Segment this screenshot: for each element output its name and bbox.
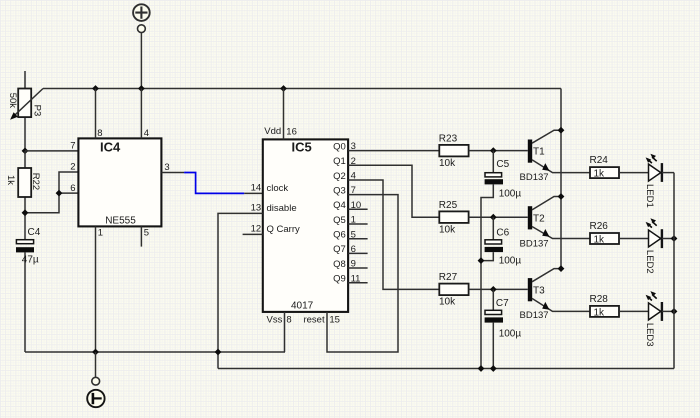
node R27/C7 [490, 286, 497, 293]
svg-text:Vss: Vss [267, 315, 283, 326]
svg-text:T1: T1 [533, 147, 545, 158]
svg-text:16: 16 [286, 126, 297, 137]
svg-text:13: 13 [251, 202, 262, 213]
svg-text:clock: clock [267, 183, 289, 194]
svg-text:NE555: NE555 [105, 216, 136, 227]
svg-text:Q4: Q4 [333, 200, 346, 211]
svg-text:reset: reset [303, 315, 324, 326]
svg-text:14: 14 [251, 183, 262, 194]
svg-text:Q8: Q8 [333, 259, 346, 270]
node top rail / supply [138, 85, 145, 92]
svg-text:3: 3 [164, 162, 169, 173]
svg-text:100µ: 100µ [499, 328, 522, 339]
wire Q1 to R25 [348, 165, 439, 217]
wire R24 to LED1 [619, 172, 649, 174]
svg-text:Q0: Q0 [333, 141, 346, 152]
wire IC4 pin8 [95, 89, 97, 139]
svg-text:R24: R24 [590, 155, 609, 166]
svg-text:Q Carry: Q Carry [267, 224, 301, 235]
svg-text:R23: R23 [439, 133, 458, 144]
svg-text:2: 2 [70, 162, 75, 173]
resistor R25 [439, 200, 469, 235]
wire R26 to LED2 [619, 238, 649, 240]
wire IC5 clock stub [244, 192, 263, 194]
svg-text:R26: R26 [590, 221, 609, 232]
wire Q6 stub [348, 238, 368, 240]
svg-text:C4: C4 [28, 227, 41, 238]
svg-text:BD137: BD137 [520, 310, 549, 321]
wire R27 to T3 base [469, 288, 528, 290]
svg-text:Vdd: Vdd [264, 126, 281, 137]
node R25/C6 [490, 214, 497, 221]
wire Q9 stub [348, 282, 368, 284]
svg-text:47µ: 47µ [22, 254, 39, 265]
svg-text:BD137: BD137 [520, 172, 549, 183]
svg-text:1k: 1k [594, 234, 606, 245]
wire IC5 Vss to ground bus [284, 312, 286, 352]
svg-text:Q9: Q9 [333, 274, 346, 285]
svg-text:Q5: Q5 [333, 215, 346, 226]
svg-text:disable: disable [267, 203, 297, 214]
transistor T2 [520, 197, 591, 250]
svg-text:R28: R28 [590, 294, 609, 305]
transistor T1 [520, 130, 591, 183]
svg-text:Q1: Q1 [333, 156, 346, 167]
wire Q7 stub [348, 252, 368, 254]
wire R28 to LED3 [619, 310, 649, 312]
node bus B / C-rail [478, 365, 485, 372]
wire supply to top rail [140, 33, 142, 89]
svg-text:IC4: IC4 [100, 140, 121, 155]
svg-text:7: 7 [351, 185, 356, 196]
LED LED1 [646, 154, 674, 182]
wire ground bus A [25, 351, 285, 353]
node bus B / C7 [490, 365, 497, 372]
svg-text:Q3: Q3 [333, 185, 346, 196]
wire ground bus B [218, 368, 674, 370]
svg-text:T3: T3 [533, 285, 545, 296]
wire blue IC4 pin3 to IC5 clock [184, 173, 244, 194]
svg-text:6: 6 [70, 183, 75, 194]
svg-text:8: 8 [286, 315, 291, 326]
wire IC4 pin2/pin6 [25, 172, 78, 213]
svg-text:C5: C5 [496, 159, 509, 170]
supply terminal + [133, 4, 150, 32]
svg-text:1k: 1k [594, 169, 606, 180]
resistor R26 [590, 221, 620, 245]
svg-text:10k: 10k [439, 297, 456, 308]
transistor T3 [520, 269, 591, 322]
svg-text:LED1: LED1 [644, 184, 655, 208]
node bus A / disable drop [215, 349, 222, 356]
potentiometer P3 [10, 71, 43, 151]
resistor R24 [590, 155, 620, 179]
wire pin7 [25, 150, 78, 152]
svg-text:5: 5 [144, 227, 149, 238]
wire Q5 stub [348, 223, 368, 225]
wire Q2 to R27 [348, 180, 439, 289]
svg-text:12: 12 [251, 223, 262, 234]
svg-text:100µ: 100µ [499, 189, 522, 200]
node pin6 [56, 190, 63, 197]
svg-text:10k: 10k [439, 158, 456, 169]
wire Q8 stub [348, 267, 368, 269]
svg-text:LED2: LED2 [644, 250, 655, 274]
node top rail / IC4 pin8 [92, 85, 99, 92]
svg-text:P3: P3 [31, 105, 42, 117]
svg-text:7: 7 [70, 141, 75, 152]
node LED3 rail [671, 308, 678, 315]
svg-text:IC5: IC5 [292, 140, 312, 155]
svg-text:BD137: BD137 [520, 239, 549, 250]
node P3/R22/pin7 [22, 148, 29, 155]
node top rail / IC5 Vdd [280, 85, 287, 92]
svg-text:R27: R27 [439, 272, 458, 283]
svg-text:1k: 1k [5, 175, 16, 185]
svg-text:10k: 10k [439, 224, 456, 235]
resistor R22 [18, 151, 31, 240]
svg-text:1: 1 [98, 227, 103, 238]
wire R23 to T1 base [469, 150, 528, 152]
resistor R28 [590, 294, 620, 318]
wire R25 to T2 base [469, 216, 528, 218]
wire IC4 pin5 stub [140, 226, 142, 246]
wire IC5 Q Carry stub [243, 233, 263, 235]
wire Q4 stub [348, 208, 368, 210]
capacitor C7 [485, 289, 522, 368]
svg-text:R22: R22 [30, 173, 41, 190]
svg-text:Q2: Q2 [333, 171, 346, 182]
node C6/C5 rail [478, 257, 485, 264]
node R23/C5 [490, 147, 497, 154]
node T1 collector [558, 127, 565, 134]
svg-text:C6: C6 [496, 227, 509, 238]
ground terminal [87, 352, 104, 407]
capacitor C6 [481, 217, 521, 266]
wire IC5 disable to ground [218, 213, 263, 368]
wire top rail [43, 88, 561, 90]
svg-text:LED3: LED3 [644, 323, 655, 347]
wire IC5 reset loop from Q3 [327, 195, 398, 352]
svg-text:15: 15 [329, 315, 340, 326]
node R22/C4 [22, 209, 29, 216]
svg-text:T2: T2 [533, 213, 545, 224]
wire LED cathode rail [673, 173, 675, 369]
LED LED3 [646, 291, 674, 321]
svg-text:1k: 1k [594, 307, 606, 318]
resistor R27 [439, 272, 469, 307]
wire IC4 pin1 to ground bus [95, 226, 97, 352]
node T3 collector [558, 265, 565, 272]
svg-text:Q7: Q7 [333, 244, 346, 255]
svg-text:R25: R25 [439, 200, 458, 211]
node LED2 rail [671, 235, 678, 242]
resistor R23 [439, 133, 469, 168]
capacitor C5 [481, 151, 521, 369]
wire IC4 pin3 stub [161, 172, 184, 174]
svg-text:C7: C7 [496, 298, 509, 309]
svg-text:50k: 50k [7, 93, 18, 109]
op IC4 NE555 [78, 138, 161, 226]
svg-text:4: 4 [144, 128, 149, 139]
wire IC5 Vdd pin16 [283, 89, 285, 140]
svg-text:100µ: 100µ [499, 255, 522, 266]
wire IC4 pin4 [140, 89, 142, 139]
svg-text:4017: 4017 [291, 301, 314, 312]
capacitor C4 [16, 240, 34, 352]
node bus A / IC4 pin1 [92, 349, 99, 356]
wire collector rail [560, 89, 562, 269]
svg-text:Q6: Q6 [333, 230, 346, 241]
node T2 collector [558, 193, 565, 200]
wire Q0 to R23 [348, 150, 439, 152]
svg-text:8: 8 [97, 128, 102, 139]
LED LED2 [646, 218, 674, 248]
op IC5 4017 [263, 139, 348, 312]
